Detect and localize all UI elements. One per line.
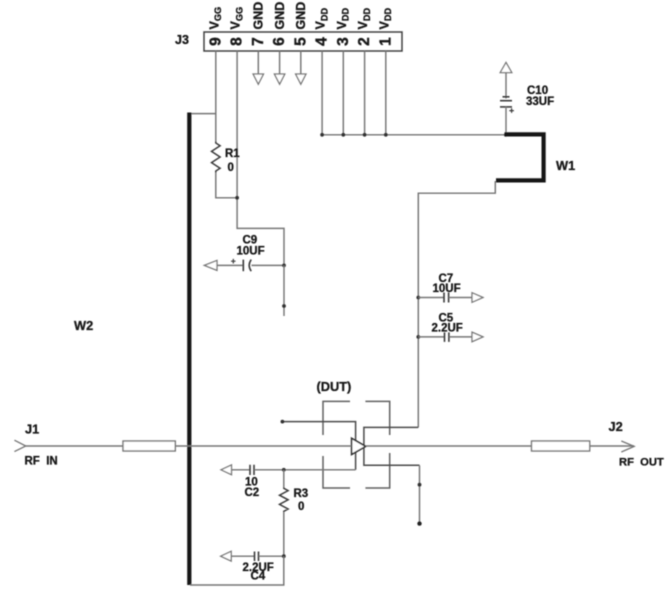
svg-text:33UF: 33UF	[526, 96, 554, 108]
node dot at drain stub end	[417, 521, 421, 525]
resistor R1 0	[212, 142, 221, 173]
J3 pin name labels VGG/GND/VDD	[207, 2, 393, 30]
ground	[253, 74, 263, 84]
wire GND stub	[257, 51, 259, 74]
junction dot on VDD bus at x=385.8	[384, 133, 388, 137]
svg-text:J3: J3	[175, 33, 189, 47]
wire TL2 to J2	[590, 445, 634, 447]
port arrow (left) for C4	[221, 551, 232, 561]
svg-text:J1: J1	[25, 422, 39, 437]
svg-text:W2: W2	[74, 318, 93, 333]
wire R3 to C4 node	[283, 512, 285, 556]
wire C4 to node	[259, 555, 284, 557]
DUT input side lines	[282, 422, 355, 470]
capacitor C2 10	[250, 465, 254, 475]
wire pin 8 down and over to C9	[237, 51, 284, 265]
svg-text:6: 6	[271, 37, 288, 46]
svg-text:GND: GND	[273, 2, 287, 30]
wire C4 node to W2 bottom	[190, 556, 284, 585]
wire C2 to DUT gate line	[254, 469, 355, 471]
port J1 arrow	[14, 440, 25, 451]
capacitor C10 33UF	[500, 97, 512, 107]
junction dot on drain stub	[418, 483, 422, 487]
junction dot C9 node	[282, 264, 286, 268]
wire rail to C5	[418, 336, 444, 338]
wire arrow to C9	[217, 264, 243, 266]
transmission line TL1	[123, 441, 175, 451]
junction dot on VDD bus at x=322.1	[320, 133, 324, 137]
wire TL1 to DUT	[175, 445, 351, 447]
svg-text:GND: GND	[252, 2, 266, 30]
svg-text:J2: J2	[609, 419, 623, 434]
junction dot C5	[416, 335, 420, 339]
junction dot on VDD bus at x=364.6	[363, 133, 367, 137]
svg-text:1: 1	[377, 37, 394, 46]
wire W1 (thick)	[496, 134, 544, 180]
port arrow (left) for C2	[221, 465, 232, 475]
junction dot on VDD bus at x=505.8	[504, 133, 508, 137]
svg-text:8: 8	[229, 37, 246, 46]
wire C5 to arrow	[449, 336, 472, 338]
wire C9 node stub down	[283, 265, 285, 316]
svg-text:RF OUT: RF OUT	[619, 457, 664, 469]
wire W2 (thick vertical)	[187, 113, 191, 586]
wire C7 to arrow	[449, 297, 472, 299]
DUT dashed box (corner brackets)	[323, 401, 390, 488]
wire arrow to C2	[232, 469, 250, 471]
node dot at DUT gate-bias line end	[281, 420, 285, 424]
junction dot R1/pin8	[235, 196, 239, 200]
power arrow above C10	[500, 62, 512, 72]
svg-text:W1: W1	[556, 158, 575, 173]
wire VDD bus	[322, 134, 506, 136]
svg-text:(DUT): (DUT)	[317, 379, 352, 394]
ground	[296, 74, 306, 84]
svg-text:2.2UF: 2.2UF	[432, 323, 463, 335]
ground	[274, 74, 284, 84]
wire pin 9 to R1	[215, 51, 217, 142]
port arrow (left) for C9	[204, 260, 217, 270]
wire VDD pins 4,3,2,1 to bus	[321, 51, 323, 135]
wire power arrow to C10	[505, 73, 507, 99]
wire C9 to junction	[252, 264, 285, 266]
connector J3	[175, 32, 402, 51]
wire GND stub	[279, 51, 281, 74]
svg-text:C2: C2	[245, 487, 260, 499]
port J2 arrow	[621, 441, 634, 452]
capacitor C9 10UF (polarized)	[242, 260, 244, 272]
junction dot C2/R3	[282, 468, 286, 472]
wire RF IN line	[26, 445, 123, 447]
port arrow (right) for C7	[472, 293, 483, 303]
svg-text:7: 7	[250, 37, 267, 46]
op-amp triangle (DUT)	[352, 438, 366, 454]
junction dot C4 node	[282, 554, 286, 558]
wire W1 thin continuation down-left to C7/C5 rail	[418, 181, 495, 427]
svg-text:3: 3	[335, 37, 352, 46]
svg-text:0: 0	[228, 162, 234, 174]
svg-text:10UF: 10UF	[433, 283, 461, 295]
J3 pin numbers 9-1	[207, 37, 394, 46]
resistor R3 0	[283, 470, 285, 488]
wire arrow to C4	[231, 555, 254, 557]
wire GND stub	[300, 51, 302, 74]
capacitor C5 2.2UF	[445, 332, 449, 342]
svg-text:R3: R3	[294, 488, 309, 500]
svg-text:GND: GND	[294, 2, 308, 30]
svg-text:10UF: 10UF	[237, 246, 265, 258]
port arrow (right) for C5	[472, 332, 483, 342]
svg-text:C4: C4	[251, 571, 266, 583]
svg-text:4: 4	[314, 37, 331, 46]
DUT output side lines	[364, 427, 420, 465]
svg-text:2: 2	[356, 37, 373, 46]
svg-text:5: 5	[292, 37, 309, 46]
svg-text:9: 9	[207, 37, 224, 46]
capacitor C4 2.2UF	[255, 552, 259, 562]
transmission line TL2	[532, 441, 590, 451]
wire DUT out to TL2	[366, 445, 532, 447]
junction dot C7	[416, 296, 420, 300]
svg-text:R1: R1	[225, 148, 240, 160]
wire C10 to bus	[505, 107, 507, 135]
wire DUT drain stub down with dots	[419, 465, 421, 523]
wire rail to C7	[418, 297, 444, 299]
capacitor C7 10UF	[444, 293, 449, 303]
svg-text:RF IN: RF IN	[25, 456, 58, 468]
svg-text:0: 0	[298, 501, 304, 513]
wire R1 bottom to pin8 net	[216, 173, 237, 198]
wire pin 9 branch to W2 top	[191, 113, 216, 115]
junction dot on VDD bus at x=343.3	[341, 133, 345, 137]
node dot on C9 stub	[282, 304, 286, 308]
